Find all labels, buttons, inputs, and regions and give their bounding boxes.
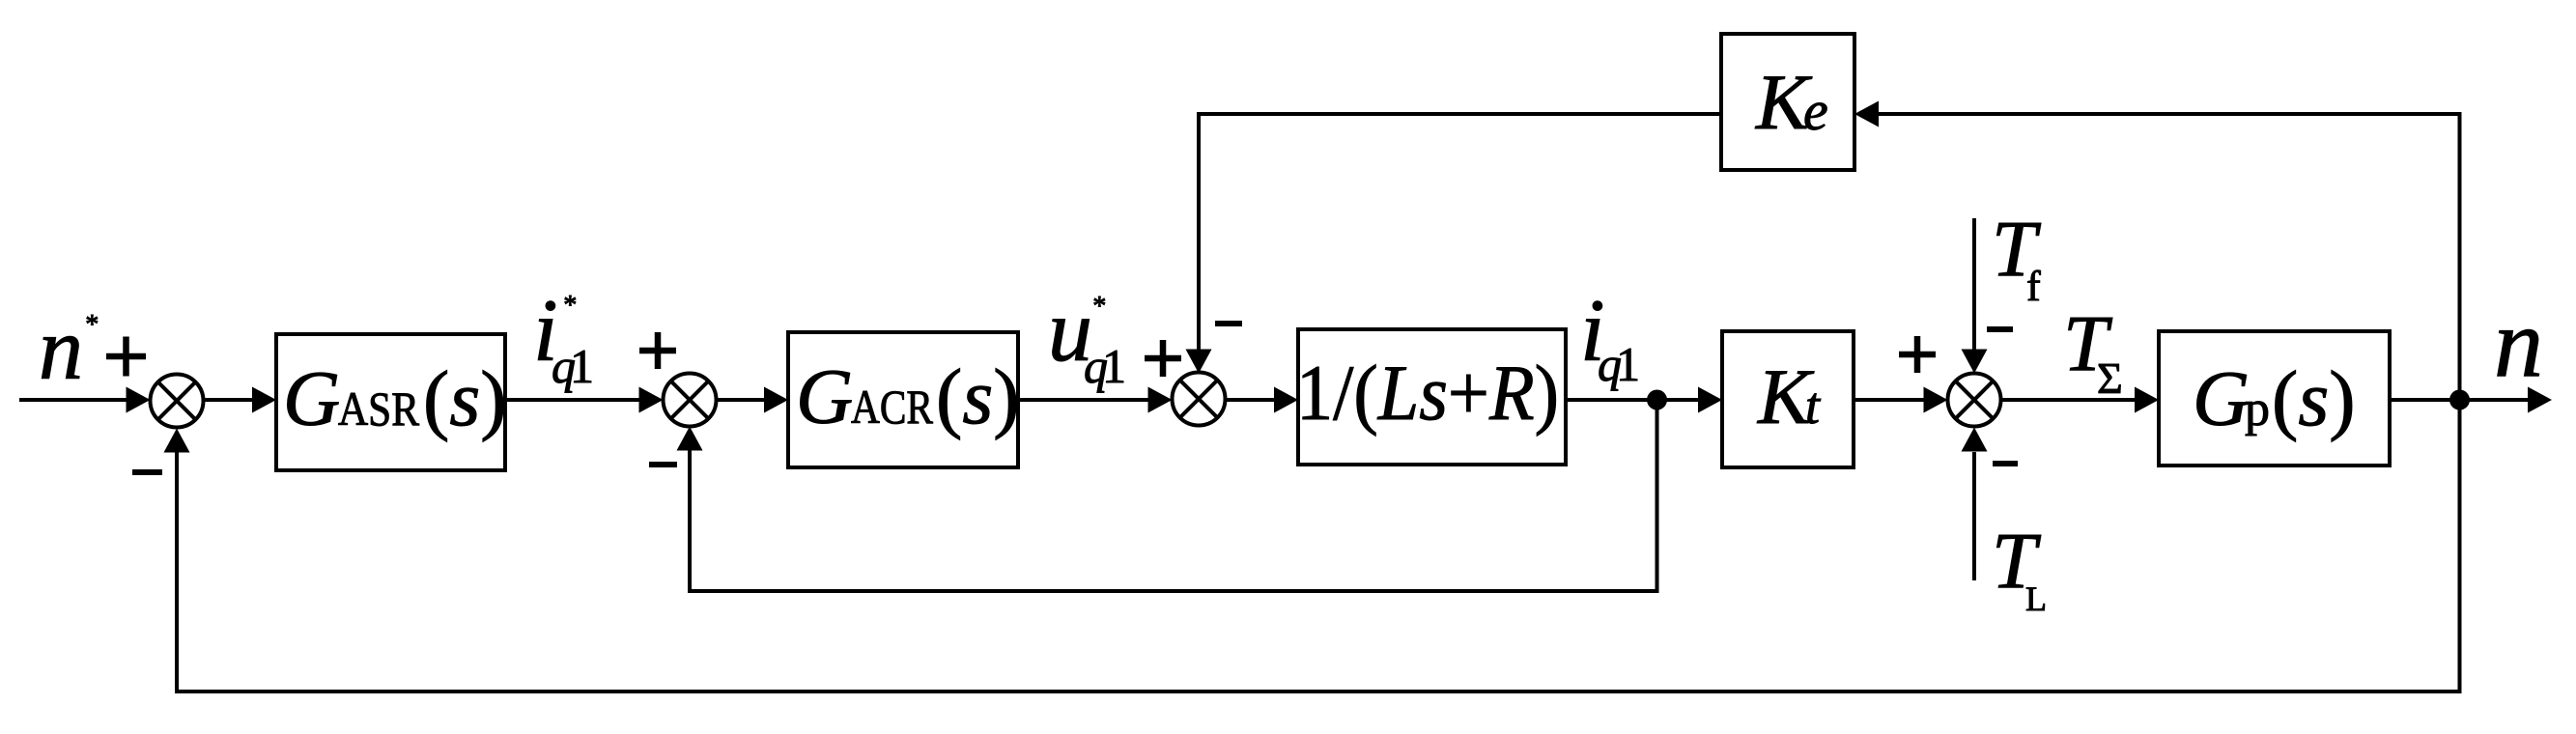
- node B junction dot: [2449, 390, 2470, 410]
- svg-text:1/(Ls+R): 1/(Ls+R): [1296, 349, 1559, 437]
- svg-text:n: n: [39, 299, 83, 398]
- arrowhead up into S1 bottom: [164, 429, 190, 453]
- wire current feedback from node A down, left, up into S2: [690, 400, 1657, 591]
- wire outer speed feedback from node B down, left, up into S1: [177, 400, 2460, 692]
- plus sign at S4: [1899, 352, 1936, 358]
- wire top feedback from node B up and left into Ke: [1860, 114, 2460, 400]
- block 1/(Ls+R) box: [1298, 329, 1566, 465]
- svg-text:1: 1: [1102, 339, 1126, 393]
- svg-text:p: p: [2245, 381, 2270, 437]
- arrowhead into Gp: [2135, 387, 2159, 413]
- arrowhead into S1: [127, 387, 151, 413]
- summing junction S2: [664, 374, 717, 427]
- svg-text:1: 1: [1616, 337, 1640, 391]
- arrowhead into S3: [1148, 387, 1173, 413]
- arrowhead into S2: [639, 387, 664, 413]
- block GACR box: [788, 332, 1018, 467]
- wire input to summing junction S1: [19, 398, 145, 402]
- svg-text:*: *: [562, 291, 576, 321]
- svg-text:1: 1: [570, 339, 594, 393]
- wire GACR to summing junction S3: [1018, 398, 1168, 402]
- wire Gp to output n: [2390, 398, 2548, 402]
- wire S2 to block GACR: [716, 398, 784, 402]
- svg-text:n: n: [2494, 289, 2543, 398]
- svg-text:L: L: [2025, 579, 2047, 618]
- summing junction S1: [151, 375, 204, 428]
- minus sign at S1: [132, 469, 162, 475]
- svg-text:Σ: Σ: [2097, 353, 2123, 403]
- arrowhead up into S4 bottom: [1962, 428, 1988, 452]
- wire Tf input down into S4: [1972, 218, 1976, 368]
- svg-text:(s): (s): [2272, 354, 2356, 442]
- arrowhead into S4: [1924, 387, 1948, 413]
- svg-text:ASR: ASR: [338, 381, 420, 436]
- arrowhead down into S4 top: [1962, 350, 1988, 374]
- block Kt box: [1722, 331, 1854, 467]
- minus sign at S2: [649, 462, 677, 467]
- wire GASR to summing junction S2: [505, 398, 660, 402]
- minus sign at S4 top: [1987, 326, 2013, 332]
- arrowhead up into S2 bottom: [677, 427, 703, 451]
- block GASR box: [276, 334, 505, 470]
- svg-text:e: e: [1803, 79, 1828, 142]
- block Ke box: [1721, 34, 1854, 170]
- block Gp box: [2159, 331, 2390, 466]
- svg-text:*: *: [84, 310, 98, 340]
- svg-text:G: G: [796, 353, 853, 440]
- wire S4 to block Gp: [2000, 398, 2155, 402]
- arrowhead down into S3 top: [1186, 350, 1212, 374]
- wire S1 to block GASR: [203, 398, 272, 402]
- summing junction S3: [1173, 373, 1226, 426]
- wire S3 to block 1/(Ls+R): [1226, 398, 1294, 402]
- arrowhead into GACR: [764, 387, 788, 413]
- svg-text:G: G: [283, 354, 340, 442]
- minus sign at S4 bottom: [1993, 461, 2018, 466]
- arrowhead left into Ke: [1854, 101, 1879, 127]
- wire Ke output left then down into S3: [1199, 114, 1721, 368]
- minus sign at S3: [1215, 321, 1242, 326]
- plus sign at S2: [639, 348, 676, 354]
- svg-text:ACR: ACR: [851, 380, 934, 434]
- svg-text:f: f: [2026, 263, 2041, 310]
- svg-text:G: G: [2193, 354, 2250, 442]
- arrowhead into Kt: [1698, 387, 1722, 413]
- wire Kt to summing junction S4: [1854, 398, 1943, 402]
- node A junction dot: [1647, 390, 1667, 410]
- svg-text:*: *: [1091, 292, 1105, 322]
- arrowhead output n: [2528, 387, 2552, 413]
- svg-text:(s): (s): [936, 353, 1020, 440]
- svg-text:(s): (s): [423, 354, 507, 442]
- svg-text:t: t: [1805, 377, 1822, 435]
- wire TL input up into S4: [1972, 452, 1976, 580]
- plus sign at S1: [106, 353, 146, 360]
- arrowhead into GASR: [252, 387, 276, 413]
- summing junction S4: [1948, 374, 2001, 427]
- wire 1/(Ls+R) to block Kt: [1566, 398, 1718, 402]
- plus sign at S3: [1145, 355, 1181, 362]
- arrowhead into 1/(Ls+R): [1274, 387, 1298, 413]
